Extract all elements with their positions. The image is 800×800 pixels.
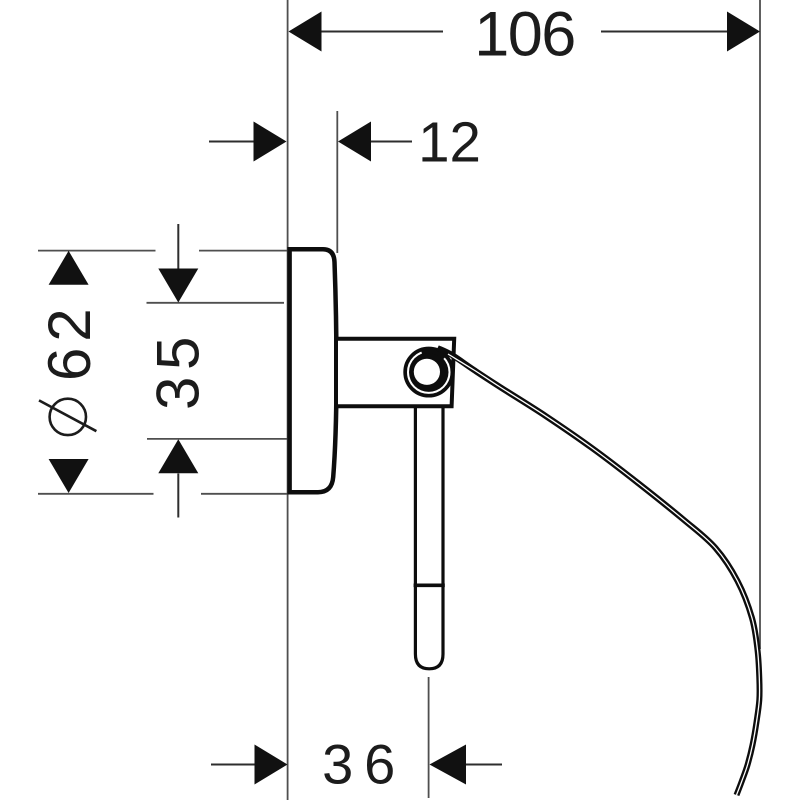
spring coil outer turn <box>405 349 452 396</box>
arrowhead 106 left <box>289 12 322 52</box>
dimension line 12 (y=141.5) <box>209 141 254 143</box>
diameter symbol circle <box>50 399 86 435</box>
arrowhead 36 left <box>255 745 288 785</box>
extension line left (wall face, x=287.6) <box>287 0 289 800</box>
extension line y=438.9 for dim 35 <box>147 438 287 440</box>
extension line right x=760 for dim 106 <box>759 0 761 649</box>
dimension line 35 vertical tails (x=178.3) <box>177 224 179 269</box>
svg-text:12: 12 <box>418 111 481 174</box>
arrowhead 35 top <box>158 269 198 303</box>
arrowhead 106 right <box>727 12 760 52</box>
wall plate (side view) <box>290 249 337 492</box>
svg-text:3: 3 <box>322 733 353 796</box>
arrowhead 12 left <box>254 122 287 162</box>
arrowhead 36 right <box>430 745 467 785</box>
arrowhead 12 right <box>338 122 371 162</box>
spring coil inner annulus <box>409 352 449 392</box>
extension line y=302.8 for dim 35 <box>147 302 285 304</box>
spindle tip divider line <box>414 583 445 587</box>
extension line spindle axis x=428.6 for dim 36 <box>428 677 430 798</box>
extension line x=337.3 for dim 12 <box>336 111 338 253</box>
dimension line 106 (y=31.5) <box>321 31 443 33</box>
svg-text:6: 6 <box>36 348 103 381</box>
spring wire white core <box>448 354 760 795</box>
mounting arm (bracket) <box>336 339 454 407</box>
coil hole <box>414 359 440 385</box>
coil top-right solid sector (where wire merges) <box>422 351 445 358</box>
spring wire (outer black) <box>438 348 760 795</box>
svg-text:106: 106 <box>474 0 575 70</box>
extension line y=493.8 bottom of plate for dim 62 <box>38 493 154 495</box>
diameter symbol slash <box>39 400 96 431</box>
extension line y=250.6 top of plate for dim 62 <box>38 250 156 252</box>
dimension line 36 (y=764.5) <box>211 764 255 766</box>
svg-text:5: 5 <box>144 337 211 370</box>
arrowhead 62 top <box>49 251 89 285</box>
arrowhead 35 bottom <box>158 439 198 473</box>
roll holder spindle <box>415 407 443 669</box>
arrowhead 62 bottom <box>49 459 89 493</box>
svg-text:6: 6 <box>364 733 395 796</box>
svg-text:2: 2 <box>36 308 103 341</box>
svg-text:3: 3 <box>144 377 211 410</box>
